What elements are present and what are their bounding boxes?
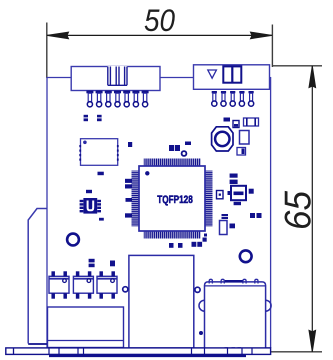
terminal block lower left [48,307,124,348]
connector J2 box [194,65,270,90]
capacitor C13 pair [250,213,262,218]
connector J1 box header [71,67,160,91]
svg-text:65: 65 [278,191,319,230]
capacitor C1 [98,172,104,176]
capacitor C8 above QFP [175,145,180,151]
connector J2 pins [212,91,254,106]
resistor R2 below J1 [97,115,102,121]
relay K2 [73,271,93,298]
IC U2 rectangle with pin1 dot [79,139,118,166]
resistor R8 [222,214,229,219]
microcontroller U1 TQFP128 [132,159,213,239]
screw hole right of transformer [195,287,200,292]
crystal Y1 octagon [212,127,233,151]
svg-text:50: 50 [144,2,175,38]
dimension line 65 [309,66,316,352]
test point dot [199,331,203,335]
dimension extension line right top [271,25,273,68]
resistor R1 below J1 [84,115,88,121]
resistor R3 left of QFP [125,179,132,189]
via hole above QFP [182,151,187,156]
relay K3 [97,271,117,298]
resistor R6 right of QFP [230,174,238,178]
capacitor C2 [86,190,92,193]
resistor R10 above relays [89,259,95,267]
capacitor C6 left of QFP [125,213,132,217]
capacitor C5 left of QFP [126,198,133,202]
regulator U3 with U marking [80,198,101,214]
diode D3 with dot [217,191,224,199]
resistor R9 below QFP pair [192,242,203,247]
board outline bottom edge [47,347,271,349]
connector J1 pins [86,91,148,107]
resistor R5 [244,118,259,126]
capacitor C9 right of J2 pins [224,118,231,122]
capacitor C11 [249,189,254,194]
dimension extension line bottom right horizontal [264,351,322,353]
capacitor C3 [99,218,104,221]
dimension extension line top right horizontal [272,65,322,67]
resistor R4 above QFP [185,142,191,146]
capacitor C17 below QFP [178,243,183,248]
connector J2 key block [223,66,241,82]
capacitor C14 tall [220,221,228,235]
board outline left edge [46,77,48,348]
connector X1 left side profile [28,209,47,345]
transformer T1 [129,255,194,348]
relay K1 [49,271,69,298]
resistor R11 above relays [110,261,115,267]
mounting hole bottom left [67,234,79,246]
dimension extension line left [46,23,48,79]
capacitor C18 [203,238,207,242]
IC U4 [228,186,247,200]
mounting hole right [240,250,252,262]
small marks left of QFP bottom [204,234,207,237]
diode D1 [233,121,239,128]
DIN rail bar bottom [6,348,271,356]
capacitor C16 below QFP [169,243,174,248]
capacitor C15 [230,224,236,229]
capacitor C7 above QFP [169,145,174,151]
board outline right edge [270,77,272,348]
capacitor C12 [234,202,241,205]
diode D2 below [237,148,246,156]
resistor R7 right of QFP [230,180,238,184]
svg-text:TQFP128: TQFP128 [157,194,193,206]
board outline top edge [47,77,271,79]
screw hole left of transformer [123,287,128,292]
connector X2 bottom right [199,279,271,350]
capacitor C10 right of crystal [240,131,250,145]
dimension line 50 [47,32,272,39]
capacitor C4 left of QFP [128,142,132,147]
connector J2 pin1 triangle [208,70,217,78]
